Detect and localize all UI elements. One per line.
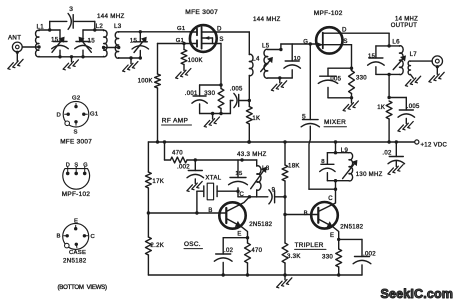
svg-text:2N5182: 2N5182 — [340, 223, 363, 230]
svg-text:E: E — [237, 231, 241, 237]
svg-text:2N5182: 2N5182 — [63, 257, 87, 264]
svg-text:15: 15 — [130, 37, 138, 44]
svg-text:D: D — [57, 113, 62, 119]
svg-text:144 MHZ: 144 MHZ — [253, 16, 281, 23]
svg-text:3.3K: 3.3K — [287, 253, 301, 260]
svg-text:470: 470 — [251, 248, 262, 254]
svg-text:C: C — [91, 234, 96, 240]
svg-text:.005: .005 — [407, 104, 420, 110]
svg-text:10: 10 — [294, 56, 302, 62]
svg-text:G: G — [83, 162, 88, 168]
svg-text:15: 15 — [368, 54, 376, 60]
svg-text:L3: L3 — [114, 23, 122, 30]
svg-text:330: 330 — [356, 75, 367, 81]
svg-text:+12 VDC: +12 VDC — [421, 143, 448, 149]
svg-text:OSC.: OSC. — [184, 241, 201, 248]
svg-text:100K: 100K — [138, 79, 153, 85]
svg-text:100K: 100K — [188, 58, 203, 64]
svg-text:15: 15 — [51, 36, 59, 43]
svg-text:E: E — [74, 218, 78, 224]
svg-text:.002: .002 — [363, 251, 376, 257]
svg-text:SeekIC.com: SeekIC.com — [381, 287, 454, 301]
svg-text:.001: .001 — [185, 91, 198, 97]
svg-text:S: S — [74, 162, 78, 168]
svg-text:330: 330 — [322, 253, 333, 260]
svg-text:.02: .02 — [224, 248, 234, 254]
svg-text:.02: .02 — [382, 150, 392, 156]
svg-text:RF AMP: RF AMP — [162, 118, 189, 125]
svg-text:.005: .005 — [230, 87, 243, 93]
svg-text:C: C — [328, 196, 333, 202]
svg-text:18K: 18K — [288, 163, 300, 170]
svg-text:1K: 1K — [252, 116, 260, 122]
svg-text:43.3 MHZ: 43.3 MHZ — [237, 151, 267, 158]
svg-text:8: 8 — [321, 159, 325, 165]
svg-text:130 MHZ: 130 MHZ — [356, 172, 383, 178]
svg-text:L8: L8 — [262, 165, 270, 172]
svg-text:1K: 1K — [377, 105, 385, 111]
svg-text:L1: L1 — [37, 23, 45, 30]
svg-text:B: B — [57, 234, 61, 240]
svg-text:15: 15 — [235, 171, 243, 177]
svg-text:L4: L4 — [252, 55, 260, 62]
svg-text:L2: L2 — [96, 23, 104, 30]
svg-text:B: B — [304, 211, 308, 217]
svg-text:15: 15 — [88, 37, 96, 44]
svg-text:L6: L6 — [392, 39, 400, 46]
svg-text:MFE 3007: MFE 3007 — [185, 9, 218, 16]
svg-text:2N5182: 2N5182 — [249, 221, 272, 228]
svg-text:144 MHZ: 144 MHZ — [97, 13, 125, 20]
svg-text:2.2K: 2.2K — [150, 242, 164, 249]
svg-text:G1: G1 — [90, 112, 98, 118]
svg-text:17K: 17K — [152, 178, 164, 185]
svg-text:XTAL: XTAL — [205, 174, 221, 181]
svg-text:5: 5 — [302, 113, 306, 120]
svg-text:470: 470 — [172, 151, 183, 157]
svg-text:S: S — [343, 38, 347, 45]
svg-text:S: S — [74, 129, 78, 135]
svg-text:TRIPLER: TRIPLER — [295, 242, 324, 249]
svg-text:G1: G1 — [177, 26, 185, 32]
svg-text:G: G — [303, 39, 308, 45]
svg-text:OUTPUT: OUTPUT — [391, 23, 417, 29]
svg-text:E: E — [330, 233, 334, 239]
svg-text:C: C — [240, 192, 245, 198]
svg-text:L7: L7 — [410, 51, 418, 58]
svg-text:CASE: CASE — [69, 250, 86, 256]
svg-text:.005: .005 — [328, 76, 341, 82]
svg-text:MPF-102: MPF-102 — [314, 10, 343, 17]
svg-text:G2: G2 — [72, 96, 80, 102]
svg-text:MPF-102: MPF-102 — [62, 191, 91, 198]
svg-text:D: D — [66, 162, 70, 168]
svg-text:330: 330 — [204, 91, 215, 97]
svg-text:ANT: ANT — [8, 34, 21, 41]
svg-text:L9: L9 — [341, 147, 349, 154]
svg-text:S: S — [219, 36, 223, 43]
svg-text:14 MHZ: 14 MHZ — [395, 16, 418, 22]
svg-text:(BOTTOM VIEWS): (BOTTOM VIEWS) — [58, 284, 107, 291]
svg-text:.002: .002 — [177, 164, 190, 170]
svg-text:B: B — [208, 208, 212, 214]
svg-text:MIXER: MIXER — [324, 119, 346, 126]
svg-text:L5: L5 — [262, 42, 270, 49]
svg-text:9: 9 — [272, 187, 276, 193]
svg-text:3: 3 — [69, 6, 73, 13]
svg-text:MFE 3007: MFE 3007 — [60, 139, 92, 146]
